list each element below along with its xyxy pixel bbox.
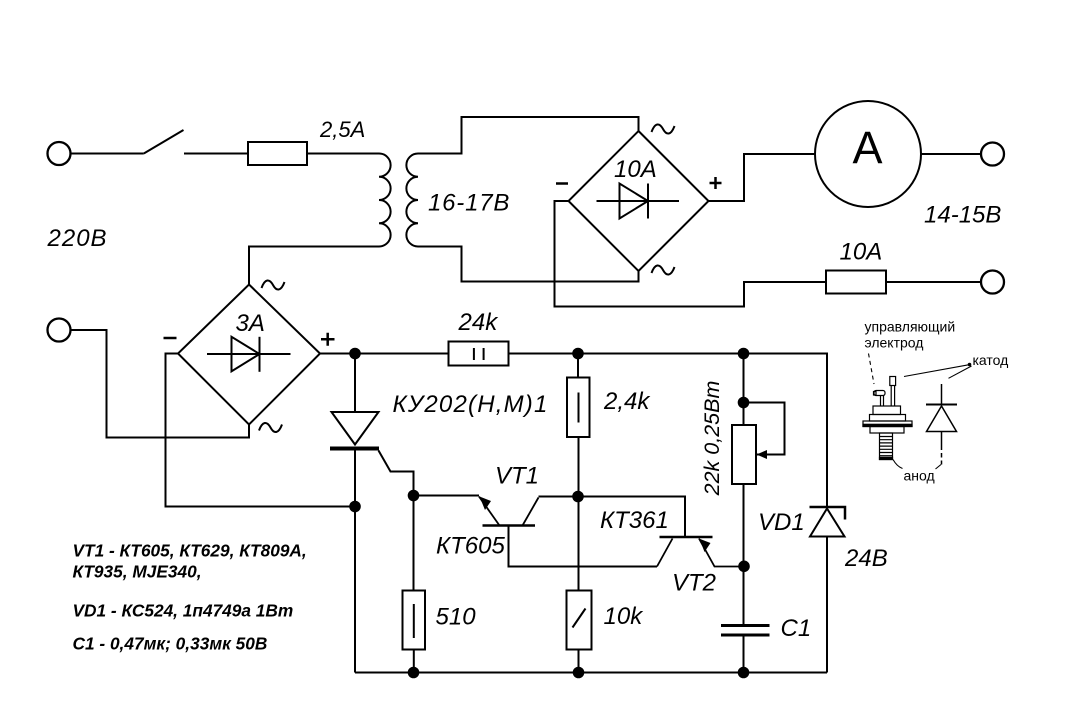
svg-text:2,5A: 2,5A: [319, 117, 365, 142]
svg-text:220В: 220В: [47, 225, 108, 252]
svg-text:24В: 24В: [844, 545, 888, 572]
svg-text:2,4k: 2,4k: [603, 388, 651, 415]
svg-text:16-17В: 16-17В: [428, 190, 510, 217]
svg-text:3A: 3A: [236, 310, 265, 337]
svg-text:VD1 - КС524, 1п4749а 1Вт: VD1 - КС524, 1п4749а 1Вт: [73, 601, 294, 621]
svg-text:24k: 24k: [458, 309, 500, 336]
svg-text:управляющий: управляющий: [865, 319, 956, 335]
svg-text:анод: анод: [904, 468, 935, 484]
svg-text:22k 0,25Вт: 22k 0,25Вт: [700, 381, 724, 497]
svg-text:VD1: VD1: [758, 509, 805, 536]
svg-text:C1: C1: [781, 615, 812, 642]
svg-text:VT2: VT2: [672, 570, 716, 597]
svg-text:10A: 10A: [614, 156, 657, 183]
svg-text:10A: 10A: [840, 239, 883, 266]
svg-text:VT1: VT1: [495, 463, 539, 490]
svg-text:КТ361: КТ361: [600, 507, 669, 534]
svg-text:14-15В: 14-15В: [924, 202, 1001, 229]
svg-text:10k: 10k: [604, 603, 645, 630]
svg-text:КТ605: КТ605: [436, 533, 506, 560]
svg-text:КУ202(Н,М)1: КУ202(Н,М)1: [393, 391, 549, 418]
svg-text:электрод: электрод: [865, 335, 924, 351]
svg-text:A: A: [852, 122, 882, 173]
svg-text:КТ935, MJE340,: КТ935, MJE340,: [73, 562, 202, 582]
svg-text:C1 - 0,47мк; 0,33мк 50В: C1 - 0,47мк; 0,33мк 50В: [73, 634, 268, 654]
svg-text:VT1 - КТ605, КТ629, КТ809А,: VT1 - КТ605, КТ629, КТ809А,: [73, 541, 307, 561]
svg-text:510: 510: [436, 604, 477, 631]
svg-text:катод: катод: [973, 352, 1009, 368]
